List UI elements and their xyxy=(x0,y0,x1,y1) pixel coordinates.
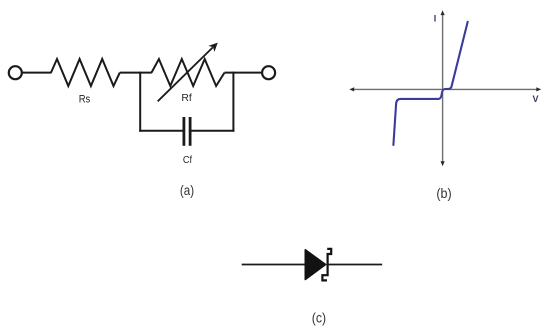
svg-text:I: I xyxy=(434,14,437,24)
svg-text:(a): (a) xyxy=(180,183,194,198)
graph b: vertical axis (I) with arrowheads xyxy=(441,10,445,166)
wire: right lead of memristor (c) xyxy=(328,264,382,266)
svg-text:Rf: Rf xyxy=(181,92,191,104)
svg-text:Rs: Rs xyxy=(79,94,91,106)
wire: T1 to resistor Rs xyxy=(22,72,51,74)
svg-text:V: V xyxy=(532,94,538,104)
svg-text:(c): (c) xyxy=(312,311,326,326)
graph b: horizontal axis (V) with arrowheads xyxy=(349,87,541,91)
resistor Rs xyxy=(51,59,120,86)
memristor M1: filled triangle xyxy=(305,250,325,280)
wire: right vertical branch of parallel RC xyxy=(232,72,234,132)
arrow of variable resistor Rf xyxy=(158,43,217,101)
wire: left lead of memristor (c) xyxy=(242,264,306,266)
wire: Rs to node A (top-left corner of parallel RC) xyxy=(120,72,152,74)
wire: capacitor Cf to bottom-right xyxy=(191,130,234,132)
wire: left vertical branch of parallel RC xyxy=(139,72,141,132)
variable resistor Rf (zigzag) xyxy=(152,59,225,86)
terminal T2 (right output of circuit a) xyxy=(262,66,275,79)
svg-text:(b): (b) xyxy=(436,186,451,201)
graph b: I-V characteristic curve xyxy=(393,22,467,145)
capacitor Cf (two plates) xyxy=(184,117,190,146)
wire: Rf to node B (top-right corner) and on to T2 xyxy=(225,72,263,74)
wire: bottom-left to capacitor Cf xyxy=(139,130,183,132)
memristor M1: bar with step hooks xyxy=(322,249,331,281)
terminal T1 (left input of circuit a) xyxy=(9,66,22,79)
svg-text:Cf: Cf xyxy=(183,154,192,166)
